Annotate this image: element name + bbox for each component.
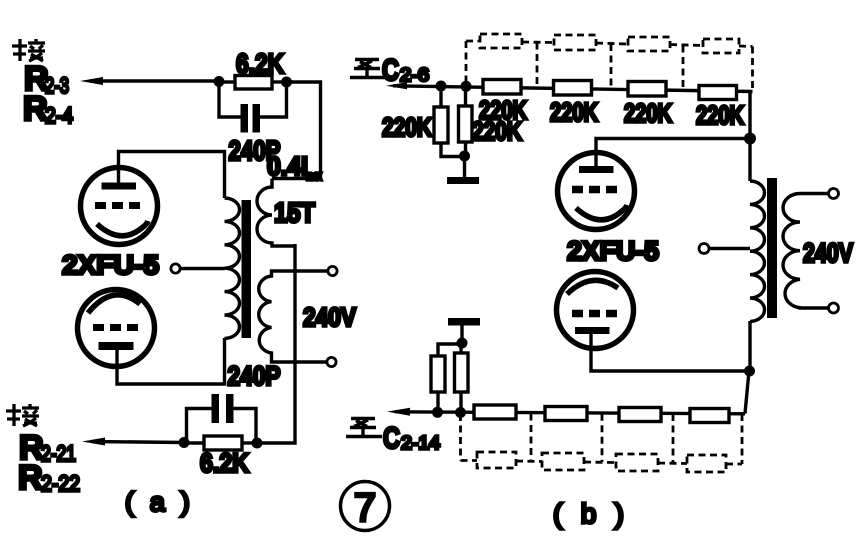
terminal: 240V top (b)	[829, 189, 839, 199]
tube V4 (b, bottom) envelope	[557, 272, 634, 349]
output winding 240V (a)	[259, 271, 328, 362]
resistor #6 (series bottom)	[545, 407, 587, 421]
V3 cathode arc	[576, 205, 627, 220]
dashed wire: chain links (top)	[466, 41, 753, 92]
V2 grid (dashed)	[93, 324, 139, 331]
wire: primary bottom to bottom bus	[748, 321, 751, 371]
svg-text:220K: 220K	[624, 98, 672, 128]
label 至 (top)	[350, 60, 386, 78]
transformer primary (b)	[750, 181, 765, 321]
dashed wire: vertical taps (top)	[465, 41, 468, 81]
junction node (220K C bottom)	[432, 407, 443, 418]
resistor 220K C (vertical, bottom no label)	[438, 344, 462, 356]
ground (top pair)	[463, 156, 466, 177]
junction node (to ground, top)	[459, 151, 470, 162]
junction node (top-left of 6.2K)	[214, 76, 225, 87]
resistor 220K D (vertical, bottom no label)	[459, 347, 462, 353]
wire: top bus to C2-6 (arrow left)	[393, 86, 753, 92]
svg-text:220K: 220K	[472, 116, 522, 146]
dashed resistor #1 (top)	[480, 34, 522, 48]
svg-text:2-6: 2-6	[400, 65, 429, 85]
resistor 220K B (vertical)	[464, 92, 467, 107]
svg-text:7: 7	[354, 486, 376, 530]
resistor 220K A (vertical)	[439, 92, 442, 108]
svg-text:0.4I: 0.4I	[267, 151, 308, 181]
wire: lead to R2-3/R2-4 (arrow left)	[90, 79, 219, 82]
V1 plate bar	[102, 183, 137, 190]
tube V1 (a, top) envelope	[81, 168, 158, 245]
svg-text:240V: 240V	[803, 238, 853, 268]
junction node (220K B top)	[461, 81, 472, 92]
label 接 (bottom-left)	[6, 404, 39, 426]
svg-text:220K: 220K	[550, 97, 598, 127]
ground (bottom pair, b)	[448, 318, 480, 326]
svg-text:220K: 220K	[382, 112, 432, 142]
svg-text:220K: 220K	[696, 100, 744, 130]
V1 cathode arc	[97, 221, 148, 236]
svg-text:max: max	[306, 168, 322, 183]
resistor 220K #4 (series top)	[699, 86, 737, 100]
svg-text:240P: 240P	[228, 361, 281, 391]
junction node (bottom-left of 6.2K)	[179, 437, 190, 448]
node: primary center tap terminal	[171, 264, 180, 273]
dashed resistor #3 (top)	[628, 37, 670, 51]
resistor 6.2K (top)	[219, 80, 235, 83]
capacitor 240P (top) wires	[219, 85, 241, 117]
terminal: 240V bottom (a)	[327, 357, 336, 366]
transformer core (b)	[767, 178, 777, 318]
dashed resistor #5 (bottom)	[477, 452, 516, 468]
svg-text:240V: 240V	[303, 302, 357, 332]
svg-text:C: C	[383, 422, 400, 455]
svg-text:2-21: 2-21	[41, 441, 76, 466]
svg-text:( a ): ( a )	[125, 487, 194, 517]
dashed resistor #6 (bottom)	[542, 453, 584, 470]
arrowhead	[80, 77, 103, 85]
V2 cathode arc (top)	[88, 295, 140, 313]
label 接 (top-left, hand strokes)	[12, 39, 45, 61]
wire: 6.2K right junction down to 15T winding	[272, 82, 321, 179]
label 至 (bottom)	[346, 419, 382, 437]
transformer core (a)	[242, 200, 252, 338]
figure number 7 (circled)	[341, 482, 390, 531]
V1 grid (dashed)	[95, 202, 141, 209]
svg-text:2-3: 2-3	[45, 73, 69, 98]
svg-text:( b ): ( b )	[553, 498, 629, 529]
svg-text:6.2K: 6.2K	[236, 48, 284, 79]
junction node (220K A top)	[436, 81, 447, 92]
junction node (220K D bottom)	[455, 407, 466, 418]
svg-text:6.2K: 6.2K	[200, 448, 249, 478]
resistor #5 (series bottom)	[474, 405, 516, 419]
svg-text:2-4: 2-4	[45, 103, 73, 128]
junction node (top-right of 6.2K)	[281, 77, 292, 88]
wire: 15T bottom down to lower RC network	[262, 244, 295, 443]
dashed resistor #8 (bottom)	[687, 455, 726, 472]
svg-text:2XFU-5: 2XFU-5	[62, 250, 159, 280]
junction node (primary bottom)	[744, 366, 755, 377]
winding 15T (feedback secondary)	[257, 179, 295, 247]
svg-text:15T: 15T	[274, 197, 315, 228]
dashed resistor #4 (top)	[703, 39, 739, 53]
V3 grid (dashed)	[572, 186, 618, 194]
resistor #8 (series bottom)	[690, 409, 729, 423]
tube V2 (a, bottom) envelope	[78, 290, 155, 367]
resistor 6.2K (bottom)	[184, 441, 204, 444]
svg-text:2-22: 2-22	[41, 471, 80, 496]
resistor #7 (series bottom)	[619, 408, 661, 422]
resistor 220K #1 (series top)	[483, 80, 521, 95]
V4 plate bar	[575, 327, 610, 334]
tube V3 (b, top) envelope	[558, 153, 635, 230]
dashed resistor #2 (top)	[554, 35, 596, 50]
svg-text:2XFU-5: 2XFU-5	[567, 236, 659, 266]
V4 grid (dashed)	[572, 310, 618, 318]
wire: chain end down to primary (b)	[748, 92, 751, 182]
capacitor 240P (bottom) plates	[212, 394, 220, 423]
capacitor 240P (bottom) wires	[187, 409, 212, 440]
svg-text:2-14: 2-14	[401, 433, 440, 453]
V3 plate bar	[579, 166, 614, 173]
node: primary center tap terminal (b)	[699, 244, 709, 254]
V4 cathode arc (top)	[567, 280, 618, 294]
svg-text:R: R	[23, 90, 48, 128]
terminal: 240V top (a)	[328, 266, 337, 275]
secondary winding 240V (b)	[783, 194, 828, 309]
dashed resistor #7 (bottom)	[616, 454, 658, 471]
terminal: 240V bottom (b)	[829, 303, 839, 313]
junction node (chain / primary top)	[744, 133, 756, 145]
wire: plate bus (b top)	[596, 139, 750, 169]
resistor 220K #2 (series top)	[554, 81, 592, 96]
primary winding (a) with plate leads	[119, 152, 225, 199]
capacitor 240P (top) plates	[241, 104, 249, 133]
resistor 220K #3 (series top)	[628, 82, 666, 97]
junction node (ground, bottom)	[457, 338, 468, 349]
dashed wire: vertical taps (bottom)	[459, 414, 462, 461]
wire: V4 plate to bottom bus (b)	[591, 334, 750, 371]
dashed wire: chain links (bottom)	[461, 414, 743, 465]
svg-text:C: C	[382, 54, 399, 87]
wire: lead to R2-21/R2-22 (arrow left)	[92, 442, 184, 443]
wire: bottom bus down to chain (b)	[745, 371, 749, 414]
V2 plate bar	[99, 342, 134, 350]
wire: bottom bus to C2-14 (arrow left)	[395, 412, 745, 414]
junction node (bottom-right of 6.2K)	[252, 438, 263, 449]
svg-text:R: R	[18, 459, 43, 497]
